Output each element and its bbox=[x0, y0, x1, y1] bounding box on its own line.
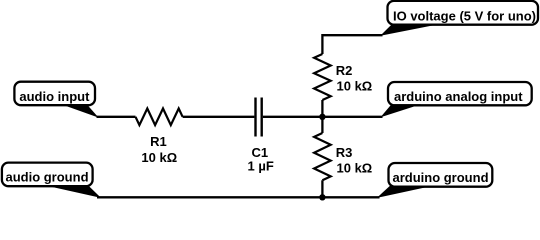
resistor R1 bbox=[136, 109, 183, 126]
svg-text:audio input: audio input bbox=[19, 89, 90, 104]
node: junction bottom bbox=[319, 194, 325, 200]
resistor R2 bbox=[314, 54, 331, 100]
resistor R3 bbox=[314, 133, 331, 180]
label audio input bbox=[14, 82, 98, 118]
svg-text:R3: R3 bbox=[336, 145, 353, 160]
svg-text:1 µF: 1 µF bbox=[248, 158, 274, 173]
capacitor C1 bbox=[256, 98, 262, 137]
svg-text:10 kΩ: 10 kΩ bbox=[337, 160, 373, 175]
svg-text:IO voltage (5 V for uno): IO voltage (5 V for uno) bbox=[393, 8, 536, 23]
wire: top net from R2 corner to IO voltage tail bbox=[322, 35, 382, 54]
wire: middle net, audio input tail to R1 bbox=[97, 116, 136, 118]
svg-text:10 kΩ: 10 kΩ bbox=[337, 78, 373, 93]
label audio ground bbox=[2, 163, 101, 198]
svg-text:audio ground: audio ground bbox=[5, 169, 88, 184]
wire: R2 bottom through node to R3 top bbox=[321, 100, 323, 133]
label IO voltage (5 V for uno) bbox=[380, 1, 538, 36]
label arduino ground bbox=[377, 163, 493, 198]
wire: bottom ground net bbox=[97, 196, 380, 198]
label arduino analog input bbox=[380, 82, 531, 117]
svg-text:arduino analog input: arduino analog input bbox=[394, 89, 523, 104]
svg-text:arduino ground: arduino ground bbox=[392, 170, 488, 185]
node: junction middle bbox=[319, 114, 325, 120]
svg-text:R2: R2 bbox=[336, 63, 353, 78]
wire: R3 bottom to ground net bbox=[321, 180, 323, 197]
wire: R1 to C1 left plate bbox=[183, 116, 255, 118]
svg-text:10 kΩ: 10 kΩ bbox=[141, 150, 177, 165]
wire: C1 right plate to arduino analog input tail bbox=[263, 116, 383, 118]
svg-text:R1: R1 bbox=[150, 134, 167, 149]
